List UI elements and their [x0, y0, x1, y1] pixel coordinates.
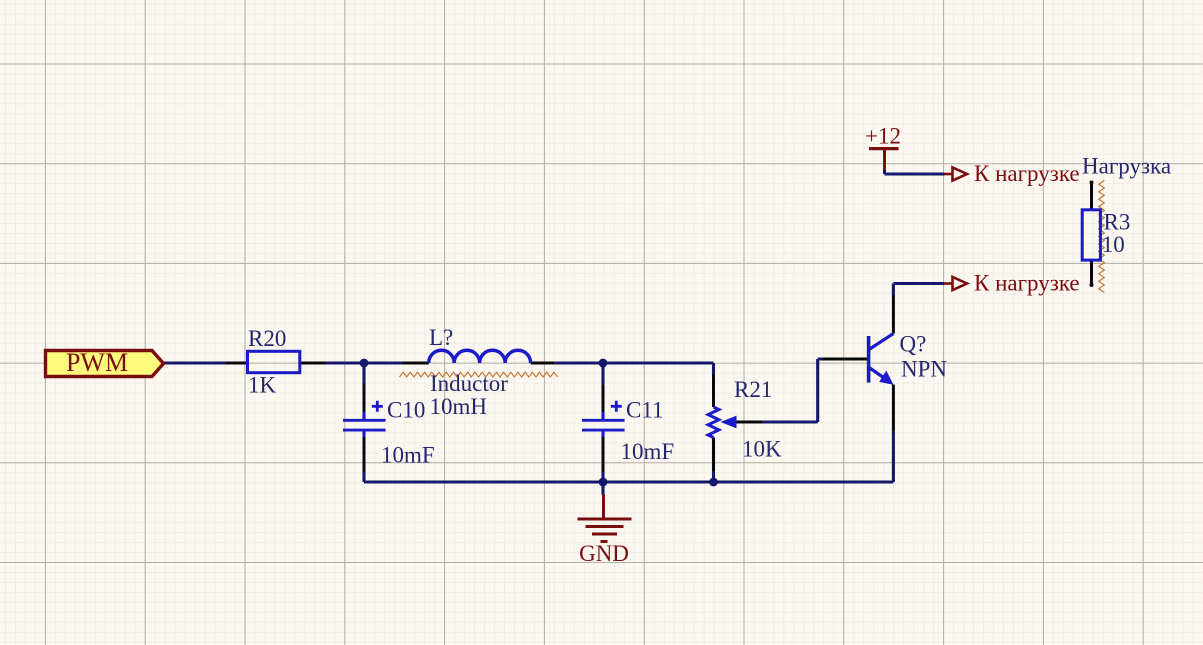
svg-text:К нагрузке: К нагрузке	[974, 161, 1080, 186]
svg-text:PWM: PWM	[66, 348, 128, 377]
svg-text:Нагрузка: Нагрузка	[1082, 154, 1171, 179]
svg-text:C10: C10	[387, 397, 425, 422]
svg-text:C11: C11	[626, 397, 664, 422]
svg-text:Inductor: Inductor	[430, 371, 508, 396]
svg-text:NPN: NPN	[901, 357, 947, 382]
svg-text:1K: 1K	[248, 372, 277, 397]
svg-text:10mF: 10mF	[381, 443, 435, 468]
svg-text:10K: 10K	[742, 437, 782, 462]
svg-text:10mH: 10mH	[430, 394, 488, 419]
svg-text:L?: L?	[429, 325, 453, 350]
svg-text:К нагрузке: К нагрузке	[974, 271, 1080, 296]
svg-text:R20: R20	[248, 326, 286, 351]
svg-text:10: 10	[1102, 232, 1125, 257]
svg-text:Q?: Q?	[900, 332, 927, 357]
svg-text:10mF: 10mF	[621, 439, 675, 464]
svg-text:R3: R3	[1104, 209, 1131, 234]
svg-text:+12: +12	[865, 124, 901, 149]
svg-text:GND: GND	[579, 541, 629, 566]
svg-text:R21: R21	[734, 377, 772, 402]
